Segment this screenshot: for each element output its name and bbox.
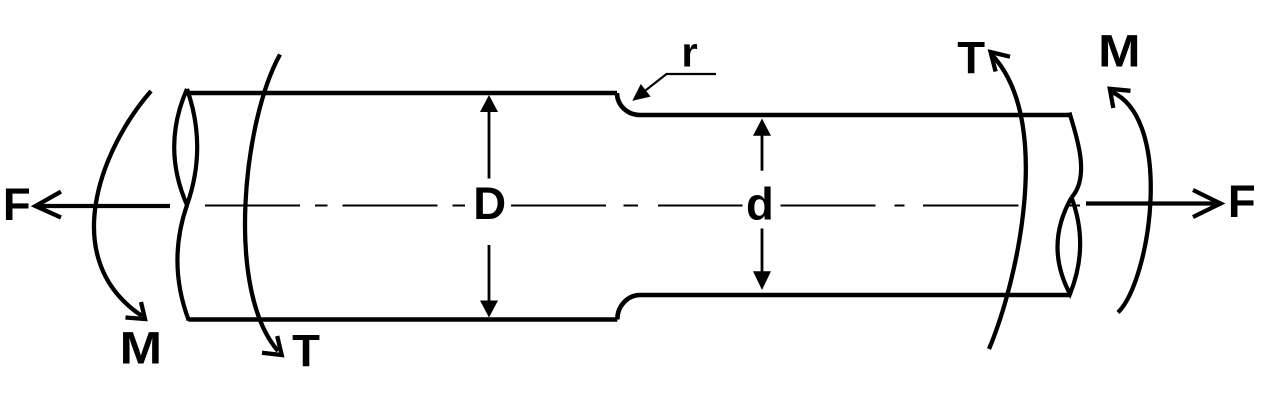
svg-text:M: M: [120, 323, 162, 374]
torque arrow T left (curved across shaft, arrow at bottom): [245, 55, 282, 356]
left end break: lower arc: [177, 205, 188, 321]
right end break: lens (lower half, pointed oval): [1058, 198, 1081, 295]
centerline (shaft axis, dash-dot): [205, 205, 1080, 207]
svg-text:d: d: [746, 179, 774, 230]
fillet r: top shoulder arc: [617, 93, 640, 115]
force arrow F left (axial, pointing left): [36, 192, 171, 218]
left end break: lens (upper half, pointed oval): [174, 89, 197, 205]
shaft outline: large-section top edge: [188, 91, 618, 96]
svg-text:T: T: [957, 32, 985, 83]
svg-text:M: M: [1098, 26, 1140, 77]
dimension d: vertical line with solid arrowheads: [753, 119, 771, 291]
shaft outline: large-section bottom edge: [189, 317, 618, 322]
fillet: bottom shoulder arc: [617, 295, 640, 320]
shaft outline: small-section bottom edge: [640, 293, 1069, 298]
moment arrow M left (curved, arrow at bottom): [94, 91, 151, 319]
svg-text:r: r: [681, 28, 697, 75]
svg-text:F: F: [3, 179, 31, 230]
svg-text:F: F: [1228, 176, 1256, 227]
force arrow F right (axial, pointing right): [1086, 190, 1221, 217]
svg-text:T: T: [292, 325, 320, 376]
leader r: polyline with solid arrowhead pointing at fillet: [632, 74, 716, 101]
torque arrow T right (curved across shaft, arrow at top): [989, 52, 1026, 349]
right end break: upper arc: [1070, 113, 1082, 198]
shaft outline: small-section top edge: [640, 113, 1069, 118]
moment arrow M right (curved, arrow at top): [1110, 89, 1151, 313]
dimension D: vertical line with solid arrowheads: [480, 95, 498, 318]
svg-text:D: D: [473, 178, 506, 229]
